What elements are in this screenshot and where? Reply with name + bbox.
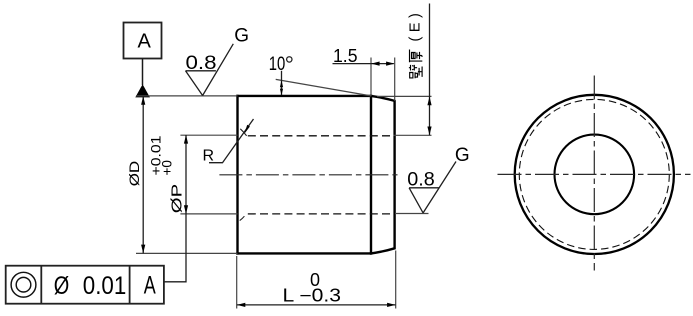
hidden hole line bottom (dashed) (248, 213, 393, 215)
centerline side view (219, 174, 397, 176)
inner hole circle (555, 135, 635, 215)
dimension line (333, 63, 394, 65)
frame divider 2 (129, 266, 131, 304)
taper extension line (276, 79, 371, 96)
outer circle (515, 95, 674, 254)
extension line bottom (136, 252, 238, 254)
angle arrow down (280, 89, 283, 96)
OP arrow up (184, 135, 188, 144)
surface symbol check (186, 44, 234, 96)
arrow down (427, 127, 431, 136)
svg-text:A: A (138, 30, 152, 52)
frame box (6, 266, 164, 304)
frame divider 1 (40, 266, 42, 304)
extension line (395, 213, 429, 215)
datum filled triangle (135, 84, 150, 97)
angle arrow line (281, 71, 283, 95)
centerline vertical (593, 76, 595, 271)
glyph BI (wall) (410, 72, 418, 78)
OD arrow up (141, 96, 145, 105)
arrow right (386, 62, 395, 66)
svg-text:0.01: 0.01 (83, 272, 127, 300)
arrow up (427, 97, 431, 106)
extension line top (136, 95, 238, 97)
extension line right (394, 58, 396, 101)
svg-text:ØP: ØP (170, 184, 186, 214)
OD dimension line (142, 96, 144, 253)
hole entry fillet bottom (240, 216, 245, 220)
glyph HOU (thick) (410, 50, 423, 63)
svg-text:G: G (234, 26, 249, 47)
hidden hole line top (dashed) (248, 135, 393, 137)
concentricity symbol outer circle (11, 272, 36, 297)
svg-text:10: 10 (269, 54, 286, 75)
extension line top (180, 134, 237, 136)
extension line bottom (180, 213, 237, 215)
part outline (thick) (238, 96, 395, 254)
svg-text:R: R (203, 148, 215, 165)
extension line left (370, 58, 372, 96)
OP arrow down (184, 205, 188, 214)
arrow left (237, 303, 246, 307)
concentricity symbol inner circle (16, 277, 31, 292)
svg-text:L −0.3: L −0.3 (283, 285, 342, 305)
svg-text:A: A (144, 272, 156, 300)
arrow right (387, 303, 396, 307)
arrow left (371, 62, 380, 66)
hole entry fillet top (240, 129, 246, 136)
angle arrow up (280, 80, 283, 87)
svg-text:1.5: 1.5 (333, 46, 358, 66)
extension line outer (377, 95, 432, 97)
dimension line (237, 304, 396, 306)
extension line hole (394, 134, 432, 136)
dimension line vertical (429, 4, 431, 136)
centerline horizontal (498, 173, 691, 175)
extension line right (395, 251, 397, 309)
svg-text:+0: +0 (160, 160, 175, 176)
extension line left (236, 256, 238, 309)
OP dimension line and leader to frame (164, 135, 186, 282)
dashed circle (519, 99, 669, 249)
svg-text:Ø: Ø (54, 272, 70, 300)
R leader line (209, 119, 254, 163)
datum A frame box (124, 23, 162, 59)
svg-text:G: G (455, 145, 470, 166)
OD arrow down (141, 245, 145, 254)
datum leader line (142, 59, 144, 86)
label wall-thickness (E) rotated (409, 50, 422, 79)
surface symbol check (409, 162, 456, 213)
svg-text:(E): (E) (408, 9, 424, 42)
svg-text:ØD: ØD (126, 161, 142, 187)
R leader arrow (244, 125, 250, 134)
